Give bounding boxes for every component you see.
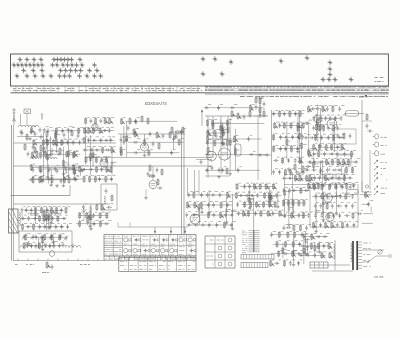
trimmer location mark T63 (349, 77, 354, 82)
osc fill (120, 118, 186, 157)
bottom bus y260 (13, 260, 105, 262)
ground G1 (28, 137, 32, 140)
tuning box (19, 231, 72, 252)
trimmer location mark T35 (78, 68, 83, 73)
trimmer location mark T58 (328, 66, 333, 71)
trimmer location mark T40 (33, 73, 38, 78)
trimmer location mark T20 (50, 62, 55, 67)
switch contact K1 (374, 160, 387, 164)
parts near x367 (362, 113, 373, 132)
switch contact K5 (374, 186, 387, 190)
mains lead (376, 250, 391, 257)
trimmer location mark T48 (92, 73, 97, 78)
band note right (375, 78, 384, 82)
trimmer location mark T8 (62, 57, 67, 62)
parts strip text row (13, 88, 202, 90)
transformer tap labels (363, 243, 371, 266)
trimmer location mark T16 (28, 62, 33, 67)
top band lower strip line (11, 92, 389, 94)
trimmer location mark T42 (49, 73, 54, 78)
trimmer location mark T22 (61, 62, 66, 67)
trimmer location mark T30 (40, 68, 45, 73)
top band frame (11, 54, 389, 86)
voltage selector (378, 250, 382, 254)
trimmer location mark T46 (77, 73, 82, 78)
trimmer location mark T19 (40, 62, 45, 67)
bottom labels left (15, 264, 90, 266)
trimmer location mark T61 (327, 77, 332, 82)
switch contact K4 (374, 178, 387, 182)
wire under L1-L2 (17, 136, 44, 138)
AGC subparts (206, 119, 233, 146)
RF extra parts (45, 127, 84, 158)
RF row 2 (21, 130, 61, 157)
wire y166 long (13, 165, 212, 167)
lamp strip E1 (241, 255, 274, 260)
parts strip right row 2 (205, 89, 389, 91)
bottom bus ticks (18, 259, 98, 261)
trimmer location mark T45 (67, 73, 72, 78)
aerial stub A2 (41, 113, 43, 120)
indicator lamp D3 (373, 151, 386, 156)
trimmer location mark T56 (305, 55, 310, 60)
switch contact K2 (374, 166, 386, 170)
parts strip right row 4 (240, 96, 388, 98)
wires into table (118, 222, 188, 234)
coil data table (119, 258, 196, 272)
transistor TS3 (324, 194, 332, 204)
indicator lamp D1 (373, 134, 388, 139)
table thin row (104, 256, 196, 260)
coil L4 (45, 158, 57, 160)
caps row y155 (255, 154, 271, 157)
trimmer location mark T23 (65, 62, 70, 67)
wire antenna down (14, 114, 27, 126)
connector labels (242, 231, 248, 252)
pot box (235, 144, 242, 156)
parts strip right row 3 (205, 92, 389, 94)
wire y143 bus (14, 142, 116, 144)
trimmer location mark T12 (12, 62, 17, 67)
aerial socket X1 (24, 109, 31, 114)
x258 vertical (257, 116, 259, 180)
vert wires mid (208, 116, 228, 178)
trimmer location mark T29 (31, 68, 36, 73)
trimmer location mark T18 (36, 62, 41, 67)
RF row 4 (32, 176, 70, 183)
output stage parts B (235, 183, 284, 217)
bus parts (134, 130, 177, 138)
capacitor C2 (30, 129, 33, 134)
tube V3 (207, 151, 217, 162)
boxes pair (324, 174, 345, 179)
trimmer location mark T41 (41, 73, 46, 78)
bottom right bracket (362, 181, 372, 195)
long vertical x272 (271, 110, 273, 175)
mains switch S1 (362, 250, 376, 263)
rotor symbol (82, 208, 87, 220)
transistor TS4 (326, 213, 334, 223)
TS2 parts (144, 164, 163, 199)
coil L8 (38, 246, 53, 248)
indicator lamp D2 (373, 142, 388, 147)
tuning box parts (22, 234, 69, 248)
tube V4 (219, 148, 231, 161)
mid parts col (207, 122, 229, 153)
vertical x370 (369, 150, 371, 190)
coil L2 (29, 125, 39, 127)
AF section main (311, 105, 347, 152)
trimmer location mark T1 (18, 57, 23, 62)
parts strip right row 1 (205, 86, 389, 88)
trimmer location mark T10 (69, 57, 74, 62)
strip ruled lines (205, 87, 388, 95)
supply chain x260 (254, 96, 268, 118)
wire y271 (312, 270, 353, 272)
trimmer location mark T44 (62, 73, 67, 78)
trimmer location mark T9 (66, 57, 71, 62)
verticals above output (188, 168, 200, 196)
trimmer location mark T39 (25, 73, 30, 78)
trimmer location mark T21 (55, 62, 60, 67)
coil taps (28, 244, 73, 248)
wire y158 left (85, 157, 212, 159)
box B2 (337, 155, 351, 165)
trimmer location mark T14 (20, 62, 25, 67)
capacitor C1 (20, 129, 23, 134)
trimmer location mark T38 (15, 73, 20, 78)
trimmer location mark T43 (57, 73, 62, 78)
trimmer location mark T53 (201, 71, 206, 76)
mains transformer TR1 (351, 241, 363, 270)
trimmer location mark T24 (70, 62, 75, 67)
tube V7 (190, 214, 200, 225)
trimmer location mark T60 (321, 77, 326, 82)
rectifier section (270, 231, 310, 267)
trimmer location mark T11 (78, 57, 83, 62)
osc subcluster (171, 126, 184, 139)
coil L1 (19, 125, 29, 127)
connector strip SK1 (249, 196, 260, 252)
ratio det frame (333, 129, 356, 144)
bus pots (231, 110, 251, 119)
trimmer location mark T4 (39, 57, 44, 62)
wire y204 (14, 203, 110, 205)
wire y134 bus (118, 133, 185, 135)
right bottom parts (357, 191, 373, 223)
trimmer location mark T15 (24, 62, 29, 67)
trimmer location mark T3 (32, 57, 37, 62)
trimmer location mark T49 (98, 73, 103, 78)
frame lines out (284, 184, 358, 227)
vertical pair to table (182, 129, 185, 234)
trimmer location mark T27 (92, 62, 97, 67)
tube V1 (92, 124, 98, 132)
fuse strip (310, 262, 328, 268)
trimmer location mark T57 (328, 60, 333, 65)
svg-text:B3X54A/74: B3X54A/74 (145, 101, 167, 106)
trimmer location mark T33 (68, 68, 73, 73)
AF section left col (304, 106, 317, 183)
svg-text:CN 756: CN 756 (374, 275, 384, 279)
choke CH1 (334, 240, 336, 270)
transistor TS1 (141, 143, 149, 152)
left vertical wires (12, 125, 14, 261)
osc trimmer circle (49, 251, 55, 257)
RF coupling parts row 1 (46, 129, 79, 138)
TS1 parts (143, 134, 160, 157)
trimmer location mark T34 (73, 68, 78, 73)
trimmer location mark T5 (52, 57, 57, 62)
frame parts (337, 132, 352, 139)
wire y160 right (196, 159, 212, 164)
trimmer location mark T7 (59, 57, 64, 62)
capacitor C3 (39, 127, 42, 132)
IF2 lower parts (288, 163, 304, 176)
alignment table (205, 236, 235, 268)
driver parts (312, 183, 358, 233)
det transistor TS2 (149, 181, 157, 190)
coil L5 (28, 213, 37, 215)
right tuning cluster (76, 204, 114, 231)
coil L7 (20, 246, 35, 248)
vertical x362 (361, 100, 363, 192)
trimmer location mark T47 (85, 73, 90, 78)
wire x70 up (69, 185, 71, 196)
oval can F2 (347, 190, 359, 195)
output stage parts C (282, 172, 313, 231)
trimmer location mark T50 (201, 56, 206, 61)
RF row 3 caps (32, 167, 84, 174)
trimmer location mark T13 (16, 62, 21, 67)
trimmer location mark T31 (58, 68, 63, 73)
tuning box fill (23, 234, 67, 251)
trimmer location mark T54 (220, 71, 225, 76)
AF lower rows (305, 150, 361, 189)
tube V5 (314, 115, 322, 124)
band switch parts below (42, 261, 53, 272)
coil L3 (30, 158, 39, 160)
IF2 cluster (272, 110, 308, 176)
trimmer location mark T59 (328, 72, 333, 77)
trimmer location mark T32 (63, 68, 68, 73)
trimmer location mark T62 (333, 77, 338, 82)
osc parts above bus (127, 115, 149, 130)
wire y116 bus (205, 115, 268, 117)
wire y196 (11, 195, 71, 197)
coil L9 (65, 246, 80, 248)
aerial A1 (12, 108, 16, 121)
tube socket voltage table (104, 235, 196, 257)
osc tuning cluster (20, 206, 72, 230)
AGC fill (204, 104, 267, 175)
parts strip ticks (16, 87, 198, 93)
IF can box (101, 184, 117, 210)
RF extra parts 2 (31, 164, 84, 186)
tube V2 (100, 159, 108, 168)
trimmer location mark T52 (229, 59, 234, 64)
trimmer location mark T25 (74, 62, 79, 67)
ground G2 (55, 184, 59, 187)
trimmer location mark T6 (55, 57, 60, 62)
trimmer location mark T51 (213, 56, 218, 61)
RF fill (29, 127, 81, 187)
lamp strip E2 (241, 263, 268, 268)
trimmer location mark T28 (21, 68, 26, 73)
trimmer location mark T36 (87, 68, 92, 73)
wire y113 (344, 112, 364, 114)
trimmer location mark T17 (32, 62, 37, 67)
switch contact K3 (374, 173, 382, 177)
oval can F1 (345, 111, 359, 117)
V4 parts below (205, 165, 230, 178)
trimmer location mark T37 (95, 68, 100, 73)
power parts left (299, 233, 334, 259)
vert x202 (201, 110, 203, 127)
frame aerial FA1 (9, 209, 21, 233)
switch contact K6 (374, 191, 385, 195)
trimmer location mark T26 (80, 62, 85, 67)
output stage parts A (185, 190, 236, 230)
coil L6 (52, 213, 61, 215)
mixer column parts (82, 117, 117, 182)
trimmer location mark T55 (279, 58, 284, 63)
wire y265 (310, 264, 350, 266)
strip dark cell (359, 96, 367, 98)
tube V6 (327, 119, 337, 130)
IF transformer parts (120, 134, 123, 156)
trimmer location mark T2 (25, 57, 30, 62)
